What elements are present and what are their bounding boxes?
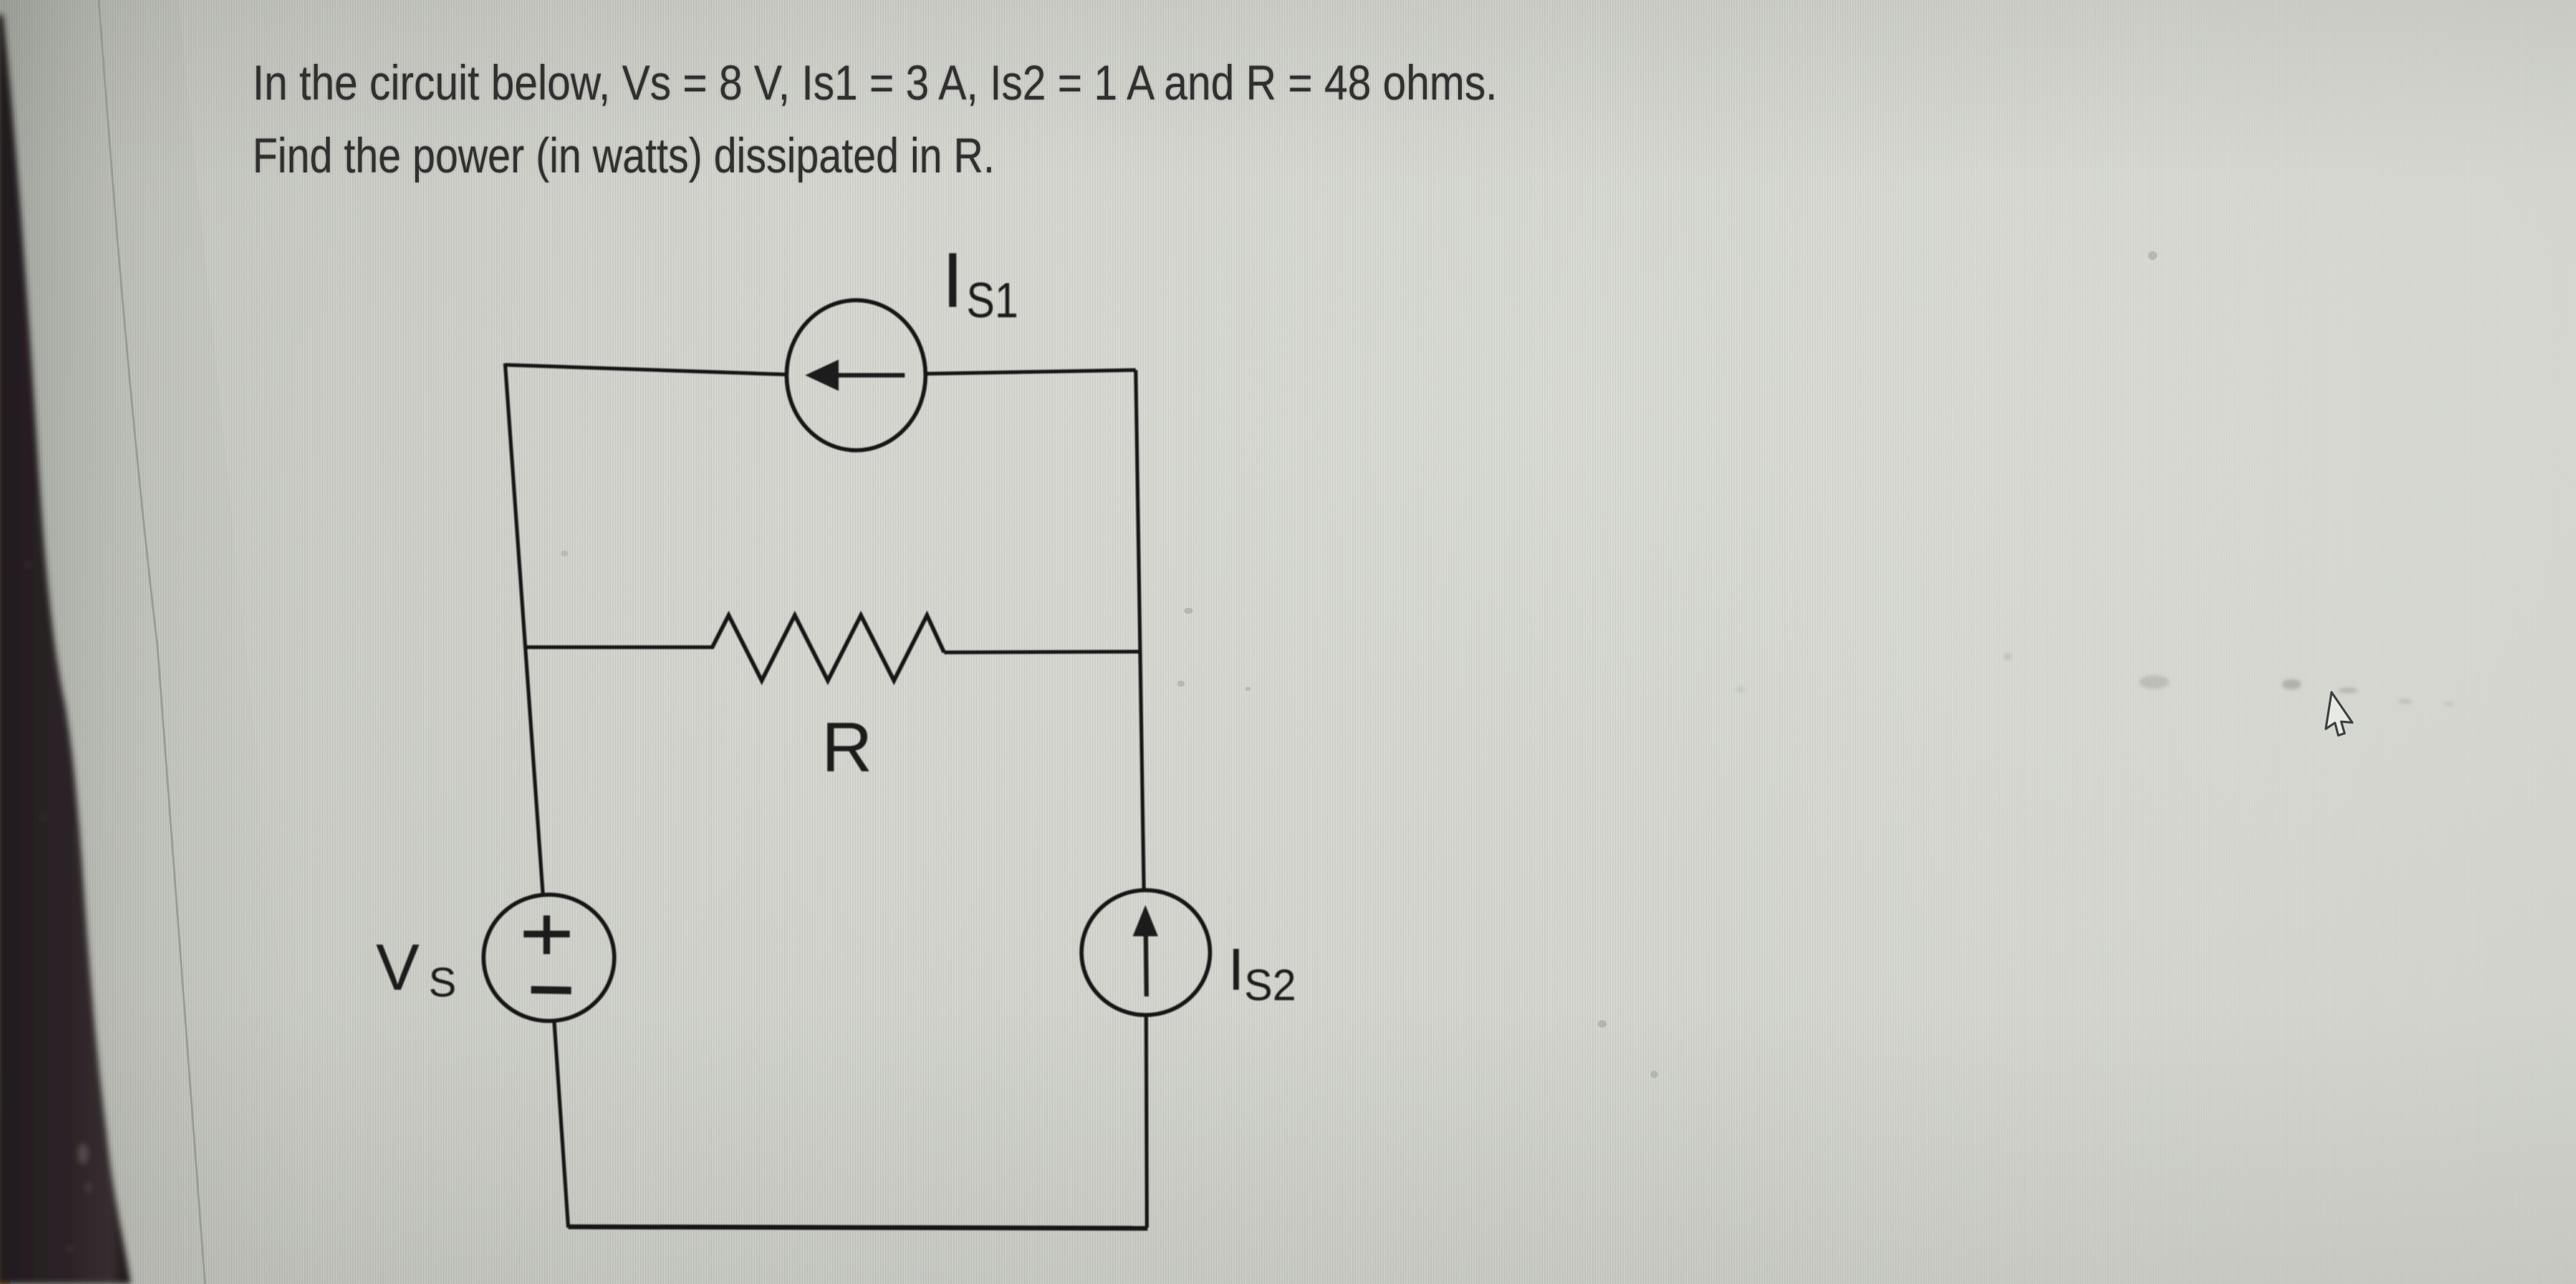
problem text line 2 — [253, 127, 995, 184]
desk wood sliver bottom-left — [0, 1111, 10, 1284]
wire left vertical upper — [505, 363, 543, 895]
svg-text:S2: S2 — [1244, 961, 1296, 1010]
wire right vertical lower — [1146, 1014, 1147, 1228]
svg-text:S1: S1 — [966, 273, 1018, 328]
svg-text:S: S — [429, 959, 456, 1005]
mouse cursor — [2325, 693, 2356, 738]
svg-text:I: I — [942, 237, 963, 324]
wire bottom — [568, 1227, 1148, 1228]
resistor R zigzag — [712, 615, 944, 681]
voltage source Vs circle — [484, 895, 614, 1021]
wire right vertical upper — [1136, 370, 1144, 891]
dust specks on screen — [561, 251, 2157, 1078]
svg-text:R: R — [822, 708, 873, 787]
wire top-right segment — [926, 370, 1136, 374]
Is2 arrow (up-pointing) — [1133, 905, 1158, 996]
wire top-left segment — [505, 365, 787, 374]
monitor bezel dark wedge — [0, 15, 131, 1284]
screen smudges near cursor — [1737, 654, 2454, 706]
Vs plus sign — [524, 915, 570, 954]
current source Is2 circle — [1082, 890, 1210, 1015]
wire middle-left to resistor — [526, 646, 714, 649]
soft shadow on screen next to bezel — [0, 0, 312, 1284]
screen edge diagonal line — [99, 0, 205, 1284]
current source Is1 circle — [787, 300, 926, 450]
svg-text:V: V — [376, 930, 420, 1004]
bezel specks — [27, 561, 91, 1253]
Vs minus sign — [531, 990, 571, 990]
wire left vertical lower — [554, 1020, 568, 1228]
problem text line 1 — [253, 54, 1497, 111]
wire resistor to right vertical — [944, 652, 1139, 652]
svg-text:I: I — [1228, 936, 1244, 1002]
Is1 arrow (left-pointing) — [805, 360, 905, 391]
